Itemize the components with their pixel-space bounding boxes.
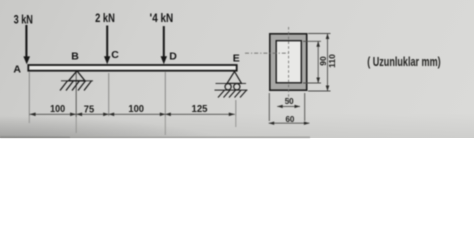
svg-text:110: 110 xyxy=(327,54,337,68)
svg-text:E: E xyxy=(233,52,240,64)
svg-text:3 kN: 3 kN xyxy=(14,13,33,26)
svg-text:50: 50 xyxy=(285,97,294,106)
svg-text:100: 100 xyxy=(50,103,65,115)
svg-text:C: C xyxy=(111,49,119,61)
svg-text:125: 125 xyxy=(192,103,208,115)
svg-text:75: 75 xyxy=(84,104,95,116)
svg-text:100: 100 xyxy=(128,103,144,115)
svg-text:B: B xyxy=(71,51,79,63)
svg-text:D: D xyxy=(169,50,177,62)
svg-text:4 kN: 4 kN xyxy=(152,12,173,25)
svg-text:2 kN: 2 kN xyxy=(95,12,115,25)
svg-text:60: 60 xyxy=(285,115,294,124)
svg-text:( Uzunluklar mm): ( Uzunluklar mm) xyxy=(367,55,441,69)
svg-text:A: A xyxy=(13,64,21,76)
